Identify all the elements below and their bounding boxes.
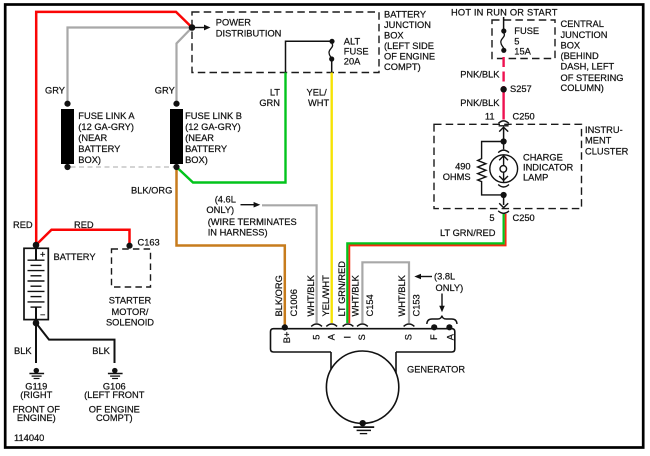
connector C250 pin 11 (top) [498, 121, 508, 124]
svg-text:CHARGE: CHARGE [523, 152, 563, 162]
connector arc generator pin S C154 [357, 324, 368, 326]
svg-text:BLK: BLK [14, 346, 32, 356]
node generator B+ [282, 324, 288, 330]
wire RED battery to starter C163 [36, 230, 130, 245]
svg-text:5: 5 [489, 213, 494, 223]
ground G119 [34, 368, 40, 374]
wire black cluster top [503, 128, 505, 142]
svg-text:C163: C163 [138, 238, 160, 248]
node fuse link B bottom [173, 164, 179, 170]
svg-text:LAMP: LAMP [523, 172, 548, 182]
svg-text:BLK/ORG: BLK/ORG [274, 275, 284, 316]
svg-text:DASH, LEFT: DASH, LEFT [561, 62, 615, 72]
svg-text:INDICATOR: INDICATOR [523, 162, 574, 172]
svg-text:PNK/BLK: PNK/BLK [460, 69, 500, 79]
svg-text:(RIGHT: (RIGHT [20, 390, 52, 400]
svg-text:C250: C250 [513, 111, 535, 121]
svg-text:YEL/: YEL/ [307, 88, 328, 98]
generator case ground [360, 420, 366, 426]
svg-text:(LEFT FRONT: (LEFT FRONT [84, 390, 145, 400]
node top junction [189, 24, 196, 31]
svg-text:A: A [326, 333, 336, 340]
svg-text:GENERATOR: GENERATOR [407, 365, 465, 375]
svg-text:MOTOR/: MOTOR/ [111, 307, 148, 317]
connector arc generator pin 5 [311, 324, 322, 326]
wire YEL/WHT to generator pin A [331, 73, 333, 324]
svg-text:(BEHIND: (BEHIND [561, 51, 600, 61]
svg-text:GRY: GRY [155, 86, 175, 96]
connector arc generator pin S C153 [404, 324, 415, 326]
svg-text:INSTRU-: INSTRU- [585, 125, 623, 135]
svg-text:BATTERY: BATTERY [384, 9, 426, 19]
svg-text:A: A [445, 333, 455, 340]
wire GRY to fuse link A [68, 28, 191, 104]
wire PNK/BLK solid S257 to C250 [502, 92, 504, 120]
dashed junction-box line between fuse links [71, 166, 174, 168]
svg-text:ENGINE): ENGINE) [17, 413, 56, 423]
svg-text:COMPT): COMPT) [96, 413, 133, 423]
svg-text:FUSE LINK B: FUSE LINK B [185, 111, 242, 121]
node fuse link B top [173, 101, 179, 107]
svg-text:114040: 114040 [14, 433, 44, 443]
svg-text:S: S [404, 334, 414, 340]
node generator F [431, 324, 437, 330]
svg-text:JUNCTION: JUNCTION [561, 30, 608, 40]
resistor 490 ohms branch [478, 142, 504, 195]
svg-text:B+: B+ [282, 332, 292, 344]
svg-text:ONLY): ONLY) [436, 283, 464, 293]
svg-text:ALT: ALT [344, 37, 361, 47]
svg-text:POWER: POWER [216, 18, 251, 28]
wire LT GRN/RED red tracer [349, 214, 505, 323]
connector arc generator pin A [326, 324, 337, 326]
svg-text:WHT: WHT [308, 98, 329, 108]
svg-text:+: + [40, 250, 45, 260]
svg-text:IN HARNESS): IN HARNESS) [208, 228, 268, 238]
svg-text:HOT IN RUN OR START: HOT IN RUN OR START [451, 8, 558, 18]
svg-text:BLK: BLK [92, 346, 110, 356]
brace over F and A pins [427, 316, 457, 324]
arrow to power distribution [195, 27, 205, 29]
box: starter motor/solenoid [112, 249, 151, 287]
node C163 [126, 243, 132, 249]
svg-text:11: 11 [485, 111, 495, 121]
wire WHT/BLK bridge generator S to S [362, 262, 409, 323]
generator body [326, 351, 398, 423]
battery symbol [24, 248, 48, 319]
wire LT GRN [177, 73, 286, 183]
svg-text:I: I [343, 336, 353, 339]
fuse link B body [170, 109, 183, 164]
svg-text:WHT/BLK: WHT/BLK [397, 274, 407, 316]
svg-text:BATTERY: BATTERY [78, 144, 120, 154]
node fuse 5 bottom [501, 48, 506, 53]
svg-text:SOLENOID: SOLENOID [106, 318, 154, 328]
fuse link A body [61, 109, 74, 164]
svg-text:WHT/BLK: WHT/BLK [350, 274, 360, 316]
svg-text:OF ENGINE: OF ENGINE [384, 51, 435, 61]
svg-text:BOX: BOX [561, 41, 581, 51]
svg-text:FUSE: FUSE [514, 26, 539, 36]
node fuse 5 top [501, 28, 506, 33]
connector C250 pin 5 (bottom) [499, 203, 508, 207]
ground G106 [112, 368, 118, 374]
svg-text:DISTRIBUTION: DISTRIBUTION [216, 29, 282, 39]
svg-text:F: F [429, 334, 439, 340]
svg-text:S: S [357, 334, 367, 340]
svg-text:5: 5 [514, 36, 519, 46]
svg-text:15A: 15A [514, 47, 531, 57]
svg-text:CENTRAL: CENTRAL [561, 19, 604, 29]
svg-text:GRY: GRY [45, 86, 65, 96]
svg-text:BOX: BOX [384, 30, 404, 40]
svg-text:C1006: C1006 [289, 289, 299, 316]
svg-text:−: − [40, 310, 45, 320]
node S257 [500, 86, 506, 92]
svg-text:JUNCTION: JUNCTION [384, 20, 431, 30]
svg-text:RED: RED [74, 220, 94, 230]
svg-text:BOX): BOX) [78, 155, 101, 165]
wire LT GRN/RED green [347, 214, 503, 323]
wire black below alt fuse [331, 59, 333, 73]
wire PNK/BLK dashed fuse 5 to S257 [502, 57, 504, 87]
3.8L only left arrow [419, 276, 432, 278]
svg-text:LT: LT [270, 88, 280, 98]
svg-text:WHT/BLK: WHT/BLK [306, 274, 316, 316]
box: fuse 5 central junction box [492, 20, 555, 59]
node battery positive [33, 242, 40, 249]
svg-text:BOX): BOX) [185, 155, 208, 165]
node junction bottom of lamp [501, 192, 507, 198]
4.6L only arrow [241, 204, 256, 206]
svg-text:(WIRE TERMINATES: (WIRE TERMINATES [208, 217, 297, 227]
svg-text:ONLY): ONLY) [206, 205, 234, 215]
svg-text:(NEAR: (NEAR [78, 133, 107, 143]
svg-text:S257: S257 [510, 84, 532, 94]
svg-text:PNK/BLK: PNK/BLK [460, 98, 500, 108]
svg-text:BATTERY: BATTERY [54, 252, 96, 262]
box: battery junction box (power distribution) [192, 12, 379, 73]
svg-text:20A: 20A [344, 57, 361, 67]
box: instrument cluster [434, 124, 582, 208]
svg-text:C250: C250 [513, 213, 535, 223]
svg-text:LT GRN/RED: LT GRN/RED [337, 261, 347, 317]
wire black hot in run to fuse 5 [503, 17, 505, 30]
svg-text:COMPT): COMPT) [384, 62, 421, 72]
svg-text:BLK/ORG: BLK/ORG [131, 186, 172, 196]
svg-text:(4.6L: (4.6L [215, 195, 236, 205]
svg-text:(LEFT SIDE: (LEFT SIDE [384, 41, 434, 51]
node alt fuse top [329, 39, 334, 44]
node alt fuse bottom [329, 56, 334, 61]
svg-text:OHMS: OHMS [443, 172, 471, 182]
wire BLK/ORG fuse link B to generator B+ [177, 167, 285, 325]
svg-text:CLUSTER: CLUSTER [585, 146, 629, 156]
svg-text:RED: RED [13, 220, 33, 230]
svg-text:(NEAR: (NEAR [185, 133, 214, 143]
wire BLK battery to G119 [35, 323, 37, 363]
svg-text:C154: C154 [365, 294, 375, 316]
svg-text:GRN: GRN [259, 98, 280, 108]
svg-text:FUSE: FUSE [344, 47, 369, 57]
svg-text:STARTER: STARTER [109, 296, 152, 306]
node fuse link A top [64, 101, 70, 107]
svg-text:490: 490 [455, 161, 471, 171]
svg-text:C153: C153 [411, 294, 421, 316]
svg-text:(12 GA-GRY): (12 GA-GRY) [185, 122, 241, 132]
node fuse link A bottom [64, 164, 70, 170]
wire black inside battery junction box [286, 41, 330, 72]
node generator A (3.8L) [446, 324, 452, 330]
svg-text:COLUMN): COLUMN) [561, 83, 604, 93]
svg-text:(12 GA-GRY): (12 GA-GRY) [78, 122, 134, 132]
node battery negative [33, 320, 40, 327]
svg-text:(3.8L: (3.8L [434, 272, 455, 282]
wire GRY to fuse link B [177, 29, 192, 105]
generator connector housing [271, 329, 455, 352]
wire RED battery to top junction [36, 12, 192, 245]
connector arc generator pin I [343, 324, 354, 326]
wire WHT/BLK (4.6L only) to generator pin 5 [262, 205, 317, 323]
charge indicator lamp [490, 155, 518, 183]
svg-text:BATTERY: BATTERY [185, 144, 227, 154]
svg-text:FUSE LINK A: FUSE LINK A [78, 111, 135, 121]
alt fuse 20A element [329, 44, 333, 59]
svg-text:5: 5 [311, 335, 321, 340]
fuse 5 15A element [501, 33, 505, 48]
svg-text:LT GRN/RED: LT GRN/RED [440, 228, 496, 238]
3.8L only down arrow [441, 294, 443, 308]
node junction top of lamp [501, 138, 507, 144]
wire BLK battery to G106 [36, 323, 115, 363]
svg-text:OF STEERING: OF STEERING [561, 73, 624, 83]
svg-text:MENT: MENT [585, 136, 612, 146]
wire black cluster bottom [503, 195, 505, 205]
svg-text:YEL/WHT: YEL/WHT [321, 275, 331, 317]
